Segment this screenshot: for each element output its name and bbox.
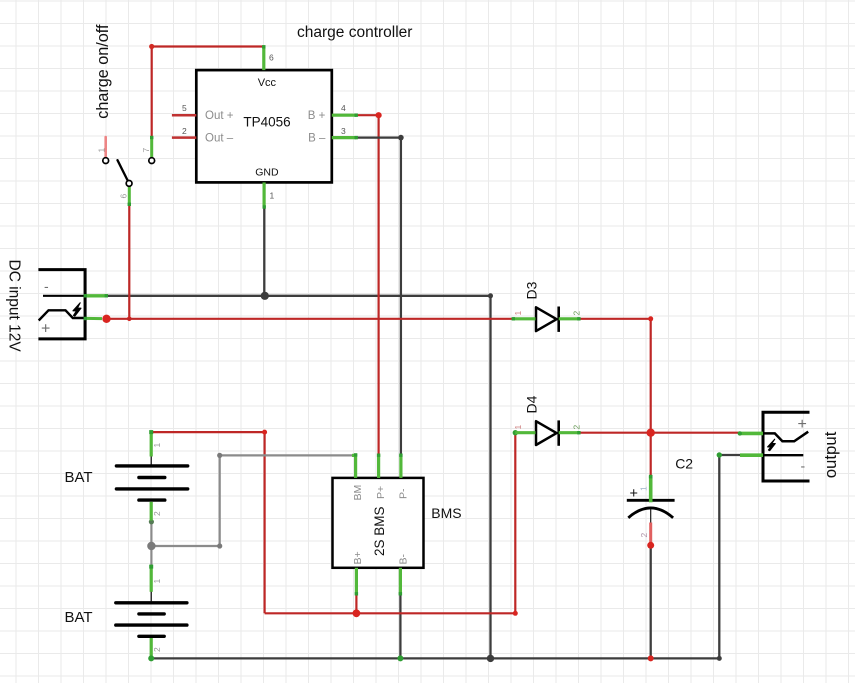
svg-text:1: 1 <box>152 443 162 448</box>
connector J2 minus pin line <box>763 454 803 456</box>
svg-text:B+: B+ <box>352 551 364 564</box>
svg-text:2: 2 <box>572 311 582 316</box>
node corner bottom rail right <box>717 656 722 661</box>
node corner gray low <box>217 543 222 548</box>
node green endpoints at pin transitions <box>128 45 581 595</box>
svg-text:+: + <box>798 416 807 433</box>
capacitor C2 plus plate <box>627 499 675 502</box>
svg-text:P-: P- <box>398 488 410 499</box>
svg-text:1: 1 <box>152 579 162 584</box>
wire red: BMS B+ to red rail <box>355 592 357 613</box>
switch S1 lever <box>118 160 130 183</box>
diode D4 cathode bar <box>557 420 560 445</box>
node endpoint battery1 pin2 <box>149 519 154 524</box>
pin 1 GND green stub <box>263 182 266 207</box>
svg-text:DC input 12V: DC input 12V <box>6 260 23 353</box>
wire dark: DC- ground rail to vertical drop <box>106 296 491 659</box>
node junction battery tap <box>147 542 155 550</box>
BMS U2 pin P+ green stub <box>377 455 380 478</box>
pin 4 B+ green stub <box>332 114 356 117</box>
node corner dot top wire <box>149 44 154 49</box>
diode D3 green stub pin1 <box>513 317 536 320</box>
svg-text:+: + <box>41 321 50 338</box>
switch S1 right green stub <box>150 137 153 157</box>
node green endpoint D4 corner <box>513 430 518 435</box>
wire red: main +12V rail DC input to D3 and corner down <box>104 319 651 433</box>
svg-text:B-: B- <box>398 553 410 564</box>
svg-text:P+: P+ <box>375 486 387 499</box>
svg-text:D3: D3 <box>524 281 540 299</box>
IC U1 TP4056 body <box>196 70 331 182</box>
battery BT2 pin1 endpoint <box>149 565 153 569</box>
svg-text:2: 2 <box>182 126 187 136</box>
battery BT1 pin1 endpoint <box>149 430 153 434</box>
svg-text:2: 2 <box>572 425 582 430</box>
svg-text:2: 2 <box>152 511 162 516</box>
svg-text:3: 3 <box>341 126 346 136</box>
svg-text:GND: GND <box>255 167 279 179</box>
svg-text:7: 7 <box>141 148 151 153</box>
node corner gray high <box>217 453 222 458</box>
node corner red rail to D4 <box>513 611 518 616</box>
BMS U2 pin BM green stub <box>352 454 357 478</box>
node dot B+ corner <box>376 112 382 118</box>
svg-text:-: - <box>801 458 806 474</box>
node junction GND rail <box>261 292 269 300</box>
svg-text:1: 1 <box>513 425 523 430</box>
capacitor C2 curved plate <box>628 508 673 518</box>
node corner GND drop <box>488 293 493 298</box>
svg-text:charge controller: charge controller <box>297 24 412 41</box>
svg-text:1: 1 <box>96 148 106 153</box>
svg-text:6: 6 <box>269 53 274 63</box>
pin 2 Out- red stub <box>172 136 196 139</box>
diode D3 triangle <box>536 307 557 331</box>
svg-text:2: 2 <box>639 533 649 538</box>
battery BT2 pin2 green stub <box>150 638 153 658</box>
capacitor C2 pin1 green stub <box>649 476 653 502</box>
diode D3 green stub pin2 <box>559 317 580 320</box>
svg-text:B +: B + <box>308 110 326 122</box>
svg-text:4: 4 <box>341 103 346 113</box>
diode D4 green stub pin2 <box>559 431 580 434</box>
node junction switch rail <box>127 317 132 322</box>
connector J2 plus pin bent line <box>763 432 808 442</box>
connector J1 minus pin line <box>43 295 85 297</box>
capacitor C2 pin1 endpoint <box>649 475 653 479</box>
svg-text:+: + <box>630 486 638 502</box>
svg-text:5: 5 <box>182 103 187 113</box>
svg-text:-: - <box>44 278 49 294</box>
wire top red: switch terminal to Vcc <box>152 47 264 138</box>
svg-text:2S BMS: 2S BMS <box>372 506 387 556</box>
svg-text:Out +: Out + <box>205 110 234 122</box>
BMS U2 pin P- green stub <box>399 455 402 478</box>
node dot corner D3 out <box>648 316 653 321</box>
svg-text:1: 1 <box>639 486 649 491</box>
wire red: B+ pin4 to P+ vertical <box>355 115 379 456</box>
switch S1 terminal circles <box>103 158 155 187</box>
BMS U2 pin B+ green stub <box>355 568 358 595</box>
battery BT2 pin1 green stub <box>150 567 153 592</box>
pin 6 Vcc green stub <box>262 47 265 71</box>
svg-text:BMS: BMS <box>431 505 461 521</box>
svg-text:BAT: BAT <box>65 609 93 626</box>
connector J1 green stub minus <box>85 294 108 297</box>
connector J1 lightning bolt <box>73 303 81 316</box>
BMS U2 body <box>333 478 424 568</box>
diode D4 triangle <box>536 421 557 445</box>
svg-text:B –: B – <box>308 133 326 145</box>
pin 5 Out+ red stub <box>172 114 196 117</box>
svg-text:TP4056: TP4056 <box>243 115 290 130</box>
battery BT1 plates <box>116 466 187 500</box>
node dot B- corner <box>398 135 404 141</box>
connector J1 DC input outline <box>38 270 85 339</box>
battery BT1 top thin lead <box>150 456 152 465</box>
connector J2 green stub minus <box>740 453 763 457</box>
battery BT1 pin2 green stub <box>150 502 153 521</box>
wire dark: BMS B- down to bottom rail <box>399 592 401 658</box>
svg-text:1: 1 <box>513 311 523 316</box>
pin 3 B- green stub <box>332 136 356 139</box>
connector J2 green stub plus <box>739 432 763 436</box>
wire dark: C2 minus to bottom rail <box>650 544 652 658</box>
node junction B+ red rail <box>353 609 361 617</box>
svg-text:Vcc: Vcc <box>258 77 277 89</box>
connector J2 green stub plus endpoint <box>738 431 742 435</box>
diode D3 cathode bar <box>557 307 560 332</box>
BMS U2 pin B- green stub <box>399 568 402 595</box>
wire gray: battery middle tap to BMS BM <box>151 455 353 566</box>
node corner battery1 red <box>262 430 267 435</box>
svg-text:Out –: Out – <box>205 133 234 145</box>
diode D4 green stub pin1 <box>515 431 535 434</box>
connector J2 output outline <box>763 412 810 481</box>
node dot GND drop on bottom rail <box>487 655 494 662</box>
svg-text:C2: C2 <box>675 456 693 472</box>
connector J1 plus pin bent line <box>39 310 85 320</box>
wire red: battery1 + to bottom red rail to D4 <box>152 432 515 613</box>
node dot C2 on bottom rail <box>648 655 654 661</box>
capacitor C2 pin2 thin lead <box>650 509 652 523</box>
wire red: D4 out to main junction and to output <box>579 433 738 476</box>
capacitor C2 pin2 red endpoint dot <box>647 542 654 549</box>
switch S1 terminal stub unconnected <box>104 137 107 157</box>
node dot DC+ endpoint <box>102 315 110 323</box>
switch S1 common green stub <box>128 187 131 205</box>
connector J2 lightning bolt <box>768 439 776 451</box>
wire red: switch common down to main red rail <box>128 204 130 319</box>
wire dark: bottom ground rail <box>151 455 740 658</box>
node junction main output <box>647 429 655 437</box>
svg-text:2: 2 <box>152 647 162 652</box>
battery BT2 top thin lead <box>150 591 152 601</box>
wire dark: TP4056 GND pin down <box>263 207 265 296</box>
svg-text:1: 1 <box>270 191 275 201</box>
node dot BMS B- on bottom rail <box>397 655 403 661</box>
capacitor C2 pin2 salmon stub <box>649 523 652 544</box>
battery BT2 plates <box>116 603 187 637</box>
node green endpoint output corner <box>717 452 722 457</box>
connector J1 green stub plus <box>85 317 102 320</box>
wire dark: B- pin3 to P- vertical <box>355 138 401 456</box>
battery BT1 pin1 green stub <box>150 432 153 456</box>
svg-text:D4: D4 <box>524 395 540 413</box>
svg-text:charge on/off: charge on/off <box>94 24 112 119</box>
connector J1 stub end caps <box>84 294 87 297</box>
svg-text:6: 6 <box>118 194 128 199</box>
svg-text:output: output <box>821 431 840 478</box>
svg-text:BM: BM <box>352 485 364 501</box>
node green endpoint battery2 bottom <box>148 655 154 661</box>
svg-text:BAT: BAT <box>65 469 93 486</box>
